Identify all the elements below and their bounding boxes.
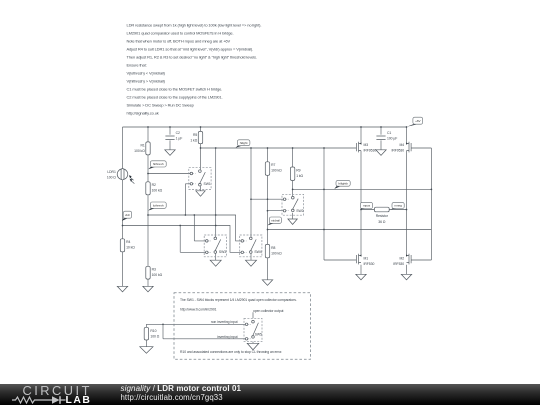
svg-text:R10: R10 — [150, 329, 156, 333]
svg-text:100 kΩ: 100 kΩ — [152, 273, 163, 277]
svg-text:M1: M1 — [364, 256, 369, 260]
svg-text:LDR1: LDR1 — [107, 170, 116, 174]
svg-text:1 kΩ: 1 kΩ — [296, 174, 303, 178]
svg-text:vldr: vldr — [125, 213, 130, 217]
svg-text:R2: R2 — [152, 183, 156, 187]
svg-text:hilight: hilight — [240, 141, 248, 145]
svg-text:C1: C1 — [387, 131, 391, 135]
svg-text:mpos: mpos — [363, 204, 371, 208]
svg-text:1 kΩ: 1 kΩ — [190, 138, 197, 142]
svg-text:Simulate > DC Sweep > Run DC S: Simulate > DC Sweep > Run DC Sweep — [127, 102, 195, 107]
svg-text:LM2901 quad comparator used to: LM2901 quad comparator used to control M… — [127, 30, 234, 35]
svg-text:100 Ω: 100 Ω — [107, 176, 116, 180]
svg-text:36 Ω: 36 Ω — [378, 220, 386, 224]
svg-text:M4: M4 — [399, 143, 404, 147]
svg-text:R8: R8 — [271, 246, 275, 250]
svg-text:R9: R9 — [296, 168, 300, 172]
svg-text:M2: M2 — [399, 256, 404, 260]
svg-text:IRF9530: IRF9530 — [391, 148, 404, 152]
svg-text:R4: R4 — [126, 240, 130, 244]
svg-text:V(hithresh) > V(midrail): V(hithresh) > V(midrail) — [127, 78, 166, 83]
svg-text:SW2: SW2 — [296, 209, 303, 213]
svg-text:10 kΩ: 10 kΩ — [126, 246, 135, 250]
svg-text:V(lothresh) < V(midrail): V(lothresh) < V(midrail) — [127, 70, 166, 75]
svg-text:Ensure that:: Ensure that: — [127, 62, 147, 67]
svg-text:http://www.ti.com/lm2901: http://www.ti.com/lm2901 — [180, 308, 217, 312]
svg-text:C2: C2 — [176, 131, 180, 135]
svg-text:100 µF: 100 µF — [387, 136, 397, 140]
svg-text:SW5: SW5 — [255, 332, 262, 336]
svg-text:hilightb: hilightb — [338, 182, 348, 186]
svg-text:IRF9530: IRF9530 — [364, 148, 377, 152]
svg-text:100 kΩ: 100 kΩ — [271, 251, 282, 255]
svg-text:R3: R3 — [152, 268, 156, 272]
svg-text:IRF530: IRF530 — [393, 262, 404, 266]
svg-text:M3: M3 — [364, 143, 369, 147]
svg-text:R7: R7 — [271, 163, 275, 167]
svg-text:Resistor: Resistor — [376, 214, 389, 218]
svg-text:open collector output: open collector output — [253, 309, 284, 313]
svg-text:R5: R5 — [193, 133, 197, 137]
svg-text:SW1: SW1 — [204, 182, 211, 186]
svg-text:The SW1 - SW4 blocks represent: The SW1 - SW4 blocks represent 1/4 LM290… — [180, 298, 297, 302]
svg-text:C1 must be placed close to the: C1 must be placed close to the MOSFET sw… — [127, 86, 223, 91]
svg-text:100 kΩ: 100 kΩ — [134, 149, 145, 153]
svg-text:mneg: mneg — [394, 204, 402, 208]
svg-text:Note that when motor is off, B: Note that when motor is off, BOTH mpos a… — [127, 38, 231, 43]
svg-text:lothresh: lothresh — [153, 203, 164, 207]
svg-text:http://signality.co.uk: http://signality.co.uk — [127, 110, 159, 115]
svg-text:IRF530: IRF530 — [364, 262, 375, 266]
svg-text:hithresh: hithresh — [153, 162, 164, 166]
svg-text:Then adjust R1, R2 & R3 to set: Then adjust R1, R2 & R3 to set desired "… — [127, 54, 257, 59]
svg-text:100 Ω: 100 Ω — [150, 335, 159, 339]
svg-text:R1: R1 — [140, 143, 144, 147]
svg-text:100 kΩ: 100 kΩ — [271, 169, 282, 173]
svg-text:C2 must be placed close to the: C2 must be placed close to the supplypin… — [127, 94, 223, 99]
svg-text:midrail: midrail — [271, 218, 280, 222]
svg-text:SW4: SW4 — [254, 250, 261, 254]
svg-text:Adjust R4 to suit LDR1 so that: Adjust R4 to suit LDR1 so that at "mid l… — [127, 46, 254, 51]
svg-text:LDR resistance swept from 1k (: LDR resistance swept from 1k (high light… — [127, 22, 262, 27]
svg-text:non inverting input: non inverting input — [211, 320, 238, 324]
svg-text:SW3: SW3 — [219, 250, 226, 254]
svg-text:R10 and associated connections: R10 and associated connections are only … — [180, 350, 282, 354]
svg-text:inverting input: inverting input — [217, 335, 237, 339]
svg-text:1 µF: 1 µF — [176, 136, 183, 140]
svg-text:100 kΩ: 100 kΩ — [152, 189, 163, 193]
